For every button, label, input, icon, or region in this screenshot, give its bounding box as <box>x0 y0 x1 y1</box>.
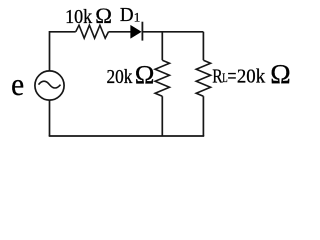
svg-text:1: 1 <box>134 9 141 24</box>
svg-text:D: D <box>120 4 134 26</box>
svg-text:20k: 20k <box>107 66 134 88</box>
diode D1 triangle <box>131 25 142 38</box>
svg-text:Ω: Ω <box>270 58 290 89</box>
wire: right branch top <box>202 32 204 60</box>
resistor 10k zigzag <box>76 25 109 38</box>
wire: diode cathode to top-right corner <box>142 31 203 33</box>
svg-text:Ω: Ω <box>95 3 112 28</box>
svg-text:=: = <box>227 63 236 87</box>
resistor RL vertical zigzag <box>196 60 210 96</box>
wire: resistor to diode anode <box>109 31 131 33</box>
wire: left vertical + top-left horizontal <box>50 32 76 71</box>
wire: right branch bottom <box>202 96 204 136</box>
AC source sine wave <box>39 81 61 88</box>
wire: middle branch top <box>161 32 163 60</box>
svg-text:e: e <box>11 67 24 102</box>
AC source circle <box>35 71 64 100</box>
svg-text:20k: 20k <box>237 65 266 87</box>
resistor 20k vertical zigzag <box>155 60 169 96</box>
wire: source bottom lead <box>49 100 51 136</box>
wire: bottom rail <box>49 135 205 137</box>
wire: middle branch bottom <box>161 96 163 136</box>
diode D1 cathode bar <box>141 22 143 41</box>
svg-text:Ω: Ω <box>135 59 155 89</box>
svg-text:10k: 10k <box>65 7 92 28</box>
